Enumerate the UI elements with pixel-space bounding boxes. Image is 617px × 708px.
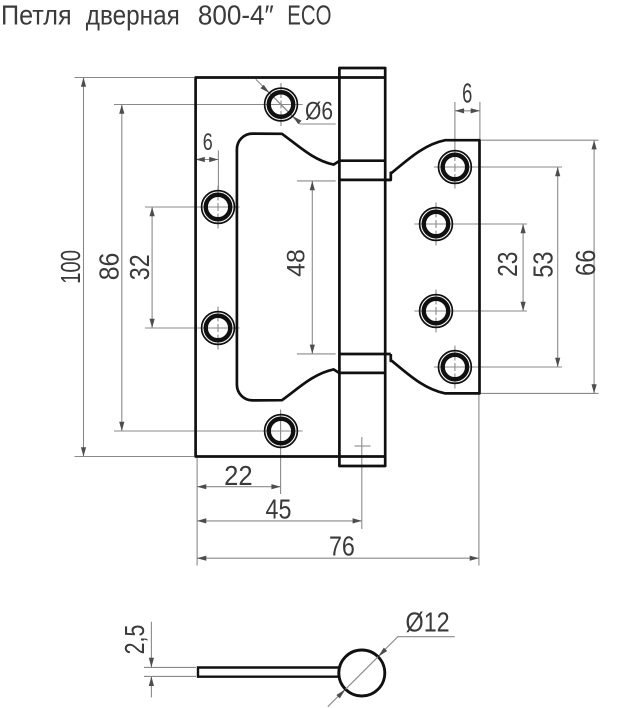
ext line plate bottom for dim 100 xyxy=(75,456,195,458)
svg-text:Ø12: Ø12 xyxy=(406,607,450,638)
svg-text:6: 6 xyxy=(462,77,472,108)
centre+ext line hole R2 to dim 23 xyxy=(414,223,527,225)
ext line right plate edge for top dim 6 xyxy=(479,102,481,139)
svg-text:Ø6: Ø6 xyxy=(305,97,333,125)
ext line right plate edge for dim 76 xyxy=(478,395,480,566)
arrows dim 32 xyxy=(150,207,155,216)
svg-text:45: 45 xyxy=(266,494,292,525)
svg-text:100: 100 xyxy=(55,250,86,284)
dim line 32 xyxy=(151,207,153,328)
dim line 100 xyxy=(83,78,85,457)
hole R2 right plate upper-mid xyxy=(420,208,453,241)
svg-text:66: 66 xyxy=(570,250,601,276)
barrel cap joint top xyxy=(339,76,385,79)
hole L3 mid-left lower xyxy=(202,312,235,345)
dim line 45 xyxy=(197,520,362,522)
svg-text:76: 76 xyxy=(329,531,355,562)
centre+ext line hole R4 to dim 53 xyxy=(434,366,562,368)
vertical centre line mid-left lower hole xyxy=(217,307,219,350)
arrows dim 2,5 xyxy=(149,658,154,668)
ext+centre line bottom-left hole for dim 86 xyxy=(114,430,303,432)
dim arrow line left 6 xyxy=(196,159,219,161)
ext line right plate top for dim 66 xyxy=(481,139,599,141)
hole L2 mid-left upper xyxy=(202,191,235,224)
side view leaf bar xyxy=(198,668,342,677)
arrows dim 45 xyxy=(197,518,206,523)
dim line 66 xyxy=(593,140,595,393)
arrows dim 23 xyxy=(521,224,526,233)
dim line 48 xyxy=(311,181,313,354)
arrows dim 86 xyxy=(119,105,124,114)
barrel knuckle line y354.4 xyxy=(339,353,390,356)
barrel axis ext line for dim 45 xyxy=(361,437,363,529)
dimension arrowheads xyxy=(81,78,597,699)
leader line Ø6 xyxy=(256,79,336,124)
arrows dim 22 xyxy=(197,484,206,489)
dim 2,5 ext ticks xyxy=(144,666,196,668)
vertical centre line hole R3 xyxy=(435,290,437,333)
dim line 86 xyxy=(121,105,123,432)
vertical centre line hole R2 xyxy=(435,203,437,246)
barrel cap joint bottom xyxy=(339,455,385,458)
svg-text:32: 32 xyxy=(124,254,155,280)
ext+centre line mid-left hole lower for dim 32 xyxy=(145,327,240,329)
ext line left for bottom dims xyxy=(196,458,198,566)
ext line right plate bottom for dim 66 xyxy=(481,392,599,394)
hole L4 bottom-left plate xyxy=(265,415,298,448)
ext+centre line top-left hole for dim 86 xyxy=(114,104,303,106)
ext line right-top hole column for top dim 6 xyxy=(454,102,456,146)
ext line for left dim 6 xyxy=(217,150,219,190)
centre+ext line hole R1 to dim 53 xyxy=(434,166,562,168)
svg-text:48: 48 xyxy=(283,249,311,277)
left plate inner cutout xyxy=(237,134,340,401)
svg-text:23: 23 xyxy=(492,252,523,277)
arrows dim 53 xyxy=(555,167,560,176)
arrows leader Ø12 xyxy=(378,648,387,657)
thin extension and centre lines xyxy=(75,78,599,707)
barrel outline xyxy=(339,68,385,466)
arrows leader Ø6 xyxy=(260,85,269,93)
dim arrow line right 6 xyxy=(455,110,480,112)
arrows dim 100 xyxy=(81,78,86,87)
arrows right dim 6 xyxy=(455,108,464,113)
ext+centre line mid-left hole upper for dim 32 xyxy=(145,206,240,208)
svg-text:ECO: ECO xyxy=(287,0,331,31)
dim line 23 xyxy=(522,224,524,311)
svg-text:Петля: Петля xyxy=(1,0,72,31)
dim line 22 xyxy=(197,486,281,488)
screw holes: outer circle + thick ring xyxy=(202,88,472,447)
arrows dim 66 xyxy=(592,140,597,149)
svg-text:53: 53 xyxy=(527,251,558,277)
left plate outline xyxy=(196,78,340,457)
Ø12 leader diagonal across circle xyxy=(346,657,379,690)
hole R1 right plate top xyxy=(439,151,472,184)
vertical centre line hole R1 xyxy=(454,146,456,189)
dim line 53 xyxy=(557,167,559,367)
arrows dim 76 xyxy=(197,556,206,561)
barrel knuckle line y160.7 xyxy=(339,159,385,162)
barrel axis tick xyxy=(355,445,371,447)
side view barrel circle Ø12 xyxy=(339,650,385,696)
Ø6 leader diagonal across hole xyxy=(270,93,293,116)
hole R3 right plate lower-mid xyxy=(420,295,453,328)
centre+ext line hole R3 to dim 23 xyxy=(414,310,527,312)
hole L1 top-left plate xyxy=(265,88,298,121)
vertical centre line top-left hole xyxy=(280,83,282,126)
barrel knuckle line y179.6 xyxy=(339,179,390,182)
svg-text:800-4″: 800-4″ xyxy=(198,0,274,31)
arrows left dim 6 xyxy=(196,157,205,162)
svg-text:86: 86 xyxy=(93,253,124,281)
ext lines dim 48 xyxy=(297,180,336,182)
vertical centre line mid-left upper hole xyxy=(217,186,219,229)
main view thick contours xyxy=(196,68,480,466)
vertical centre+ext line bottom-left hole to dim 22 xyxy=(280,410,282,495)
svg-text:22: 22 xyxy=(224,460,253,491)
ext line plate top for dim 100 xyxy=(75,77,195,79)
title text xyxy=(1,0,332,31)
svg-text:дверная: дверная xyxy=(86,0,180,31)
svg-text:2,5: 2,5 xyxy=(119,625,150,655)
dimension texts xyxy=(55,77,601,654)
svg-text:6: 6 xyxy=(203,129,213,156)
leader line Ø12 xyxy=(328,637,455,707)
barrel knuckle line y372.8 xyxy=(339,372,385,375)
dim line 76 xyxy=(197,557,479,559)
vertical centre line hole R4 xyxy=(454,346,456,389)
dim 2,5 arrow stems xyxy=(150,622,152,668)
arrows dim 48 xyxy=(310,181,315,190)
hole R4 right plate bottom xyxy=(439,351,472,384)
right plate outline xyxy=(385,140,479,393)
